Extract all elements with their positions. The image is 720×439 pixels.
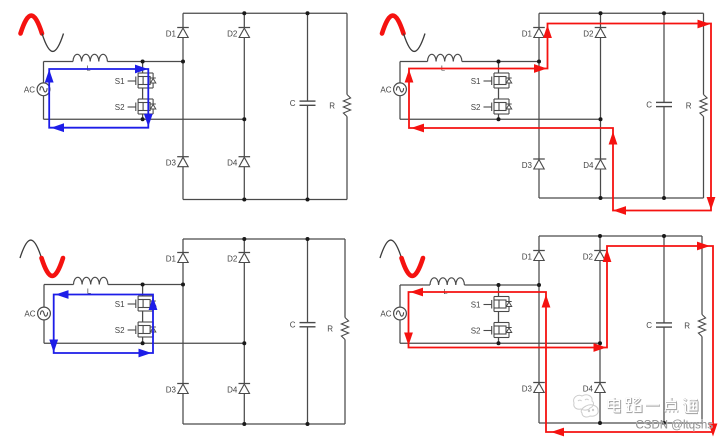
svg-text:D4: D4 [583, 161, 594, 170]
wire: inductor to switch node (TR) [462, 61, 539, 63]
svg-text:S2: S2 [115, 326, 125, 335]
node: mid rail / D2-D4 (BR) [598, 341, 602, 345]
node: top rail / C (BR) [662, 234, 666, 238]
arrowhead: TR right (to D1) [534, 64, 547, 73]
capacitor C (TL) [290, 99, 316, 108]
AC source (BR) [380, 307, 406, 320]
node: AC / D1-D3 junction (TL) [181, 60, 185, 64]
wire: D1 anode to AC node (TR) [538, 38, 540, 62]
MOSFET S1 (TL) [115, 73, 156, 88]
current path: BL blue loop (negative half, S1/S2 up) [54, 295, 153, 354]
diode D4 (BR) [583, 383, 606, 394]
wire: mid rail to D4 cathode (BR) [599, 343, 601, 382]
arrowhead: TL down (through S1/S2) [144, 114, 153, 127]
svg-text:D2: D2 [583, 253, 594, 262]
wire: D1 anode to AC node (TL) [182, 38, 184, 62]
wire: MOSFET totem-pole leg (BL) [142, 285, 144, 297]
sine half-cycle indicator (TR) [382, 16, 425, 52]
arrowhead: BR right (top rail) [697, 242, 710, 251]
wire: mid rail to D2/D4 leg (TR) [400, 118, 601, 120]
node: switch node (TL) [141, 60, 145, 64]
wire: mid rail to D2/D4 leg (TL) [44, 118, 245, 120]
wire: D1 cathode to top rail (BL) [182, 239, 184, 253]
diode D2 (TL) [227, 28, 250, 39]
svg-text:R: R [327, 325, 333, 334]
wire: capacitor bottom lead (TR) [663, 107, 665, 198]
svg-text:C: C [646, 101, 652, 110]
current path: TL blue loop (AC > L > S1/S2 > return) [49, 69, 148, 128]
arrowhead: TL left (bottom return) [51, 123, 64, 132]
node: top rail / D2 (BL) [242, 237, 246, 241]
diode D3 (TL) [166, 157, 189, 168]
wire: resistor bottom lead (BR) [701, 337, 703, 424]
wire: MOSFET totem-pole leg (BR) [498, 285, 500, 297]
svg-text:S1: S1 [115, 77, 125, 86]
svg-text:R: R [684, 322, 690, 331]
wire: AC source left vertical (BL) [43, 285, 45, 344]
wire: output bottom rail (TL) [183, 199, 347, 201]
resistor R (TL) [329, 95, 350, 117]
wire: D2 anode to mid rail (BR) [599, 261, 601, 344]
MOSFET S1 (BL) [115, 296, 156, 311]
node: bottom rail / D4 (BR) [598, 421, 602, 425]
resistor R (BR) [684, 315, 705, 337]
arrowhead: BR right (bottom to D2) [594, 343, 607, 352]
svg-text:S1: S1 [115, 300, 125, 309]
svg-text:D4: D4 [583, 385, 594, 394]
arrowhead: BL down (left branch) [49, 340, 58, 353]
arrowhead: TR up (through D4) [609, 132, 618, 145]
wire: resistor bottom lead (TR) [703, 117, 705, 199]
wire: D1/D3 column crossover (BR) [538, 285, 540, 383]
arrowhead: BL up (through S2/S1) [149, 297, 158, 310]
diode D2 (BR) [583, 251, 606, 262]
arrowhead: TR left (bottom rail) [613, 206, 626, 215]
svg-text:R: R [329, 102, 335, 111]
svg-text:D1: D1 [522, 253, 533, 262]
MOSFET S2 (TL) [115, 99, 156, 114]
arrowhead: BR up (through D2) [603, 249, 612, 262]
wire: AC top branch to inductor (BR) [400, 284, 430, 286]
svg-text:C: C [290, 99, 296, 108]
svg-text:C: C [290, 321, 296, 330]
wire: resistor top lead (BR) [701, 236, 703, 315]
svg-text:D3: D3 [522, 385, 533, 394]
inductor L (BR) [430, 278, 464, 296]
arrowhead: TR down (load branch) [707, 197, 716, 210]
wire: capacitor bottom lead (BL) [307, 327, 309, 424]
wire: resistor top lead (TL) [346, 13, 348, 94]
current path: TR red loop (AC > L > D1 > load > D4 leg > return) [409, 24, 711, 211]
diode D3 (BL) [166, 384, 189, 395]
wire: AC source left vertical (BR) [399, 285, 401, 343]
wire: D2 cathode to top rail (BR) [599, 236, 601, 251]
wire: D1 anode to AC node (BL) [182, 263, 184, 285]
wire: S1 source to S2 drain (BR) [498, 312, 500, 323]
arrowhead: BR left (mid branch to AC) [410, 288, 423, 297]
node: bottom rail / C (BR) [662, 421, 666, 425]
wire: capacitor bottom lead (TL) [307, 105, 309, 199]
wire: S1 source to S2 drain (TR) [498, 88, 500, 99]
wire: D1 cathode to top rail (BR) [538, 236, 540, 251]
resistor R (BL) [327, 318, 348, 340]
svg-text:S1: S1 [471, 301, 481, 310]
node: bottom rail / C (TR) [662, 196, 666, 200]
wire: mid rail to D4 cathode (TL) [243, 119, 245, 156]
wire: D3 anode to bottom rail (BL) [182, 394, 184, 425]
arrowhead: TR up (AC branch) [405, 70, 414, 83]
node: top rail / C (TL) [306, 11, 310, 15]
capacitor C (BL) [290, 321, 316, 330]
arrowhead: BL right (bottom branch) [139, 349, 152, 358]
svg-text:S2: S2 [115, 103, 125, 112]
node: bottom rail / D4 (TL) [242, 198, 246, 202]
node: bottom rail / D4 (TR) [599, 196, 603, 200]
svg-text:D1: D1 [522, 30, 533, 39]
node: AC / D1-D3 junction (BL) [181, 283, 185, 287]
diode D4 (TR) [583, 159, 606, 170]
wire: D1 cathode to top rail (TL) [182, 13, 184, 27]
wire: inductor to switch node (TL) [107, 61, 183, 63]
MOSFET S2 (BL) [115, 322, 156, 337]
svg-text:D2: D2 [227, 30, 238, 39]
wire: S2 source to mid rail (BR) [498, 338, 500, 344]
wire: S1 source to S2 drain (TL) [142, 88, 144, 99]
AC source (BL) [24, 307, 50, 320]
sine half-cycle indicator (BL) [20, 240, 63, 276]
wire: D1/D3 column crossover (BL) [182, 285, 184, 384]
wire: resistor top lead (TR) [703, 13, 705, 94]
node: bottom rail / D4 (BL) [242, 422, 246, 426]
wire: D2 anode to mid rail (TL) [243, 38, 245, 120]
diode D1 (TL) [166, 28, 189, 39]
node: S2 source / mid rail (BL) [141, 341, 145, 345]
node: top rail / D2 (TR) [599, 11, 603, 15]
wire: S2 source to mid rail (TL) [142, 114, 144, 119]
node: S2 source / mid rail (BR) [497, 341, 501, 345]
svg-text:S1: S1 [471, 77, 481, 86]
svg-text:D4: D4 [227, 386, 238, 395]
svg-text:L: L [86, 64, 90, 73]
MOSFET S2 (BR) [471, 323, 512, 338]
node: AC / D1-D3 junction (BR) [537, 283, 541, 287]
wire: AC source left vertical (TR) [399, 62, 401, 120]
svg-text:D2: D2 [583, 30, 594, 39]
AC source (TR) [380, 83, 406, 96]
inductor L (BL) [74, 277, 108, 295]
diode D1 (BL) [166, 253, 189, 264]
resistor R (TR) [686, 95, 707, 117]
node: S2 source / mid rail (TR) [497, 117, 501, 121]
diode D3 (BR) [522, 383, 545, 394]
svg-text:D2: D2 [227, 255, 238, 264]
wire: mid rail to D4 cathode (TR) [600, 119, 602, 159]
svg-text:D3: D3 [166, 159, 177, 168]
watermark logo doodle [574, 395, 599, 417]
svg-text:AC: AC [380, 310, 391, 319]
wire: capacitor bottom lead (BR) [663, 327, 665, 423]
arrowhead: BR down (AC branch) [404, 333, 413, 346]
svg-text:D1: D1 [166, 30, 177, 39]
diode D2 (TR) [583, 28, 606, 39]
arrowhead: TL right (top branch) [135, 65, 148, 74]
wire: D2 cathode to top rail (TL) [243, 13, 245, 27]
wire: D3 anode to bottom rail (TL) [182, 167, 184, 200]
wire: D3 anode to bottom rail (TR) [538, 169, 540, 198]
arrowhead: TR left (mid return) [411, 124, 424, 133]
wire: output top rail (BR) [539, 235, 702, 237]
wire: capacitor top lead (TL) [307, 13, 309, 101]
diode D3 (TR) [522, 159, 545, 170]
wire: MOSFET totem-pole leg (TL) [142, 62, 144, 74]
MOSFET S2 (TR) [471, 99, 512, 114]
node: switch node (TR) [497, 60, 501, 64]
node: top rail / D2 (TL) [242, 11, 246, 15]
wire: inductor to switch node (BL) [108, 284, 183, 286]
arrowhead: TR right (top rail) [698, 20, 711, 29]
svg-text:S2: S2 [471, 103, 481, 112]
wire: D2 cathode to top rail (TR) [600, 13, 602, 27]
svg-text:S2: S2 [471, 327, 481, 336]
diode D4 (TL) [227, 157, 250, 168]
wire: D4 anode to bottom rail (BL) [243, 394, 245, 425]
wire: D2 anode to mid rail (TR) [600, 38, 602, 120]
svg-text:AC: AC [24, 85, 35, 94]
wire: D2 anode to mid rail (BL) [243, 263, 245, 344]
wire: D1/D3 column crossover (TL) [182, 62, 184, 157]
diode D1 (BR) [522, 251, 545, 262]
node: top rail / C (TR) [662, 11, 666, 15]
inductor L (TL) [73, 54, 107, 72]
arrowhead: TR up (through D1) [543, 25, 552, 38]
svg-text:AC: AC [380, 85, 391, 94]
wire: resistor bottom lead (TL) [346, 117, 348, 200]
current path: BR red loop (negative half, D2 boost return) [409, 246, 714, 432]
wire: D3 anode to bottom rail (BR) [538, 393, 540, 424]
diode D1 (TR) [522, 28, 545, 39]
watermark text: CSDN @ltqshs [636, 420, 714, 432]
svg-text:CSDN @ltqshs: CSDN @ltqshs [636, 420, 714, 432]
wire: output bottom rail (BL) [183, 423, 345, 425]
svg-text:D4: D4 [227, 159, 238, 168]
wire: resistor bottom lead (BL) [344, 340, 346, 425]
node: bottom rail / C (TL) [306, 198, 310, 202]
svg-text:AC: AC [24, 310, 35, 319]
MOSFET S1 (TR) [471, 73, 512, 88]
node: switch node (BL) [141, 283, 145, 287]
wire: D1 anode to AC node (BR) [538, 261, 540, 286]
svg-text:D3: D3 [166, 386, 177, 395]
node: switch node (BR) [497, 283, 501, 287]
watermark text: dianlu yidiantong [608, 397, 698, 413]
svg-text:D1: D1 [166, 255, 177, 264]
wire: capacitor top lead (TR) [663, 13, 665, 102]
diode D4 (BL) [227, 384, 250, 395]
wire: S1 source to S2 drain (BL) [142, 311, 144, 322]
wire: D4 anode to bottom rail (TL) [243, 167, 245, 200]
wire: AC top branch to inductor (TR) [400, 61, 428, 63]
wire: mid rail to D4 cathode (BL) [243, 343, 245, 383]
capacitor C (BR) [646, 321, 672, 330]
node: AC / D1-D3 junction (TR) [537, 60, 541, 64]
wire: capacitor top lead (BR) [663, 236, 665, 323]
wire: D4 anode to bottom rail (BR) [599, 393, 601, 424]
wire: output top rail (TL) [183, 12, 347, 14]
wire: D4 anode to bottom rail (TR) [600, 169, 602, 198]
wire: AC top branch to inductor (TL) [44, 61, 74, 63]
AC source (TL) [24, 83, 50, 96]
node: mid rail / D2-D4 (TR) [599, 117, 603, 121]
svg-text:D3: D3 [522, 161, 533, 170]
wire: output bottom rail (BR) [539, 422, 702, 424]
diode D2 (BL) [227, 253, 250, 264]
wire: mid rail to D2/D4 leg (BL) [44, 342, 244, 344]
wire: AC source left vertical (TL) [43, 62, 45, 120]
wire: AC top branch to inductor (BL) [44, 284, 74, 286]
node: S2 source / mid rail (TL) [141, 117, 145, 121]
node: top rail / C (BL) [306, 237, 310, 241]
wire: resistor top lead (BL) [344, 239, 346, 318]
wire: D1 cathode to top rail (TR) [538, 13, 540, 27]
wire: S2 source to mid rail (BL) [142, 337, 144, 343]
node: top rail / D2 (BR) [598, 234, 602, 238]
svg-text:C: C [646, 321, 652, 330]
svg-text:R: R [686, 102, 692, 111]
MOSFET S1 (BR) [471, 297, 512, 312]
sine half-cycle indicator (BR) [380, 240, 423, 276]
wire: output top rail (BL) [183, 238, 345, 240]
node: mid rail / D2-D4 (BL) [242, 341, 246, 345]
node: mid rail / D2-D4 (TL) [242, 117, 246, 121]
wire: S2 source to mid rail (TR) [498, 114, 500, 119]
wire: output top rail (TR) [539, 12, 704, 14]
arrowhead: TL up (left branch) [45, 70, 54, 83]
wire: D2 cathode to top rail (BL) [243, 239, 245, 253]
sine half-cycle indicator (TL) [21, 16, 64, 52]
arrowhead: BL left (top branch) [56, 290, 69, 299]
node: bottom rail / C (BL) [306, 422, 310, 426]
wire: MOSFET totem-pole leg (TR) [498, 62, 500, 74]
wire: output bottom rail (TR) [539, 197, 704, 199]
wire: D1/D3 column crossover (TR) [538, 62, 540, 160]
wire: mid rail to D2/D4 leg (BR) [400, 342, 600, 344]
wire: capacitor top lead (BL) [307, 239, 309, 323]
inductor L (TR) [428, 54, 462, 72]
capacitor C (TR) [646, 101, 672, 110]
arrowhead: BR up (through D3 leg) [542, 295, 551, 308]
arrowhead: BR left (bottom return) [551, 428, 564, 437]
arrowhead: BR down (load branch) [709, 424, 718, 437]
wire: inductor to switch node (BR) [464, 284, 539, 286]
